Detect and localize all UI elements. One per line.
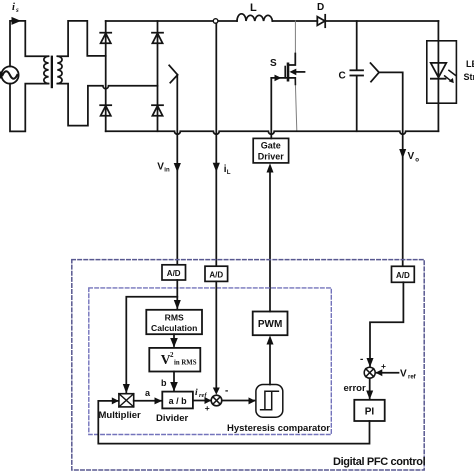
- svg-text:C: C: [339, 71, 346, 82]
- svg-text:D: D: [317, 2, 324, 13]
- svg-text:Calculation: Calculation: [151, 323, 197, 333]
- svg-text:in: in: [164, 168, 170, 174]
- node: inductor input (open circle): [213, 19, 218, 24]
- V^2 in RMS box: [149, 348, 200, 372]
- probe: Vin sensor chevron: [169, 65, 177, 82]
- svg-text:ref: ref: [199, 392, 207, 399]
- label V_o: [408, 151, 420, 163]
- svg-text:ref: ref: [408, 375, 417, 381]
- led diode symbol: [431, 63, 456, 83]
- svg-text:Multiplier: Multiplier: [99, 410, 142, 421]
- wire: iL sense line from node with arrow: [213, 23, 220, 266]
- svg-text:Gate: Gate: [261, 141, 281, 151]
- diode D1 (bridge top-left): [100, 33, 111, 44]
- wire: secondary overpass to bridge left leg: [58, 21, 106, 56]
- svg-text:PI: PI: [365, 407, 375, 418]
- wire: branch to multiplier (left then down, arrow): [123, 297, 178, 394]
- svg-text:s: s: [15, 6, 19, 14]
- transformer core: [51, 56, 53, 89]
- diode D2 (bridge top-right): [152, 33, 163, 44]
- svg-text:i: i: [12, 2, 15, 13]
- A/D box 3: [392, 266, 415, 282]
- svg-text:L: L: [227, 169, 231, 176]
- wire: bottom rail with hops: [106, 131, 439, 134]
- summing junction 2 (circle with X): [364, 367, 375, 378]
- wire: summing 1 to hysteresis arrow: [222, 397, 256, 404]
- svg-text:-: -: [360, 354, 363, 365]
- label V_ref: [400, 369, 417, 381]
- transformer secondary winding: [57, 56, 62, 83]
- wire: primary loop with i_s arrow: [10, 17, 48, 131]
- capacitor C: [350, 21, 363, 131]
- svg-text:a: a: [145, 388, 151, 398]
- svg-text:a / b: a / b: [169, 396, 188, 406]
- svg-text:A/D: A/D: [396, 271, 410, 280]
- wire: summing 2 to PI arrow: [366, 378, 373, 399]
- outer dashed box: Digital PFC control: [72, 260, 424, 470]
- svg-text:A/D: A/D: [167, 269, 181, 278]
- wire: A/D3 down, left, down into summing 2: [367, 282, 404, 367]
- divider box a/b: [162, 392, 193, 409]
- A/D box 2: [205, 266, 228, 281]
- svg-text:V: V: [408, 151, 415, 162]
- svg-text:PWM: PWM: [258, 319, 282, 330]
- wire: right leg through led: [437, 21, 439, 131]
- bridge left leg wire: [105, 21, 107, 131]
- svg-text:RMS: RMS: [165, 312, 184, 322]
- wire: gate line down to gate driver: [270, 78, 272, 138]
- inner dashed box: [89, 288, 331, 435]
- wire: divider to summing 1, label i_ref: [193, 388, 212, 404]
- summing junction 1 (circle with X): [211, 395, 222, 406]
- svg-text:V: V: [157, 162, 164, 173]
- wire: top rail: [106, 20, 439, 22]
- wire: pwm to gate driver with up arrow: [267, 163, 274, 311]
- label V_in: [157, 162, 170, 174]
- svg-text:b: b: [161, 378, 167, 388]
- multiplier (box with X): [119, 394, 134, 407]
- bridge right leg wire: [157, 21, 159, 131]
- wire: Vo sense line with arrow: [379, 72, 406, 266]
- wire: mosfet drain thin line from rail: [294, 21, 296, 55]
- led string box: [427, 41, 457, 103]
- PI box: [354, 400, 384, 421]
- svg-text:String: String: [464, 72, 474, 82]
- svg-text:V: V: [400, 369, 407, 380]
- wire: PI feedback to multiplier: [98, 397, 369, 443]
- diode D (boost diode): [317, 15, 325, 27]
- ac source Vs: [0, 66, 19, 83]
- svg-text:Hysteresis comparator: Hysteresis comparator: [227, 423, 330, 434]
- wire: secondary underpass, hops over left leg: [58, 84, 158, 126]
- diode D3 (bridge bottom-left): [100, 105, 111, 116]
- label i_L: [224, 164, 231, 176]
- diode D4 (bridge bottom-right): [152, 105, 163, 116]
- hysteresis comparator block: [256, 385, 283, 418]
- svg-text:Digital PFC control: Digital PFC control: [333, 456, 426, 468]
- svg-text:i: i: [195, 388, 198, 398]
- inductor L: [237, 14, 272, 21]
- A/D box 1: [162, 265, 186, 280]
- transistor Q1 (mosfet S): [271, 54, 304, 82]
- svg-text:Divider: Divider: [156, 413, 189, 424]
- svg-text:o: o: [415, 156, 419, 163]
- wire: A/D1 to RMS with arrow: [174, 280, 181, 310]
- wire: mosfet source thin line to bottom rail: [295, 84, 296, 131]
- svg-text:+: +: [205, 403, 210, 413]
- svg-text:S: S: [270, 58, 277, 69]
- svg-text:A/D: A/D: [209, 270, 223, 279]
- wire: iL into summing 1 arrow: [213, 281, 220, 394]
- RMS calculation box: [146, 310, 202, 334]
- svg-text:LED: LED: [466, 59, 474, 69]
- wire: hysteresis to PWM arrow: [267, 335, 274, 384]
- wire: multiplier to divider, label a: [134, 388, 162, 404]
- label LED String: [464, 59, 474, 82]
- gate driver U1: [253, 138, 288, 163]
- svg-text:Driver: Driver: [258, 152, 285, 162]
- wire: Vin sense line with arrow: [174, 75, 181, 265]
- label i_s: [12, 2, 19, 14]
- svg-text:L: L: [250, 2, 257, 14]
- svg-text:2: 2: [170, 351, 174, 359]
- wire: Vrms to divider arrow, label b: [161, 372, 178, 392]
- svg-text:-: -: [225, 385, 228, 396]
- probe: Vo sensor chevron: [371, 63, 380, 82]
- svg-text:in RMS: in RMS: [174, 360, 197, 367]
- wire: Vref into summing 2: [375, 369, 398, 376]
- wire: RMS to Vrms box arrow: [170, 334, 178, 347]
- PWM box: [253, 312, 288, 336]
- transformer T1 primary winding: [44, 56, 49, 83]
- svg-text:error: error: [344, 383, 366, 394]
